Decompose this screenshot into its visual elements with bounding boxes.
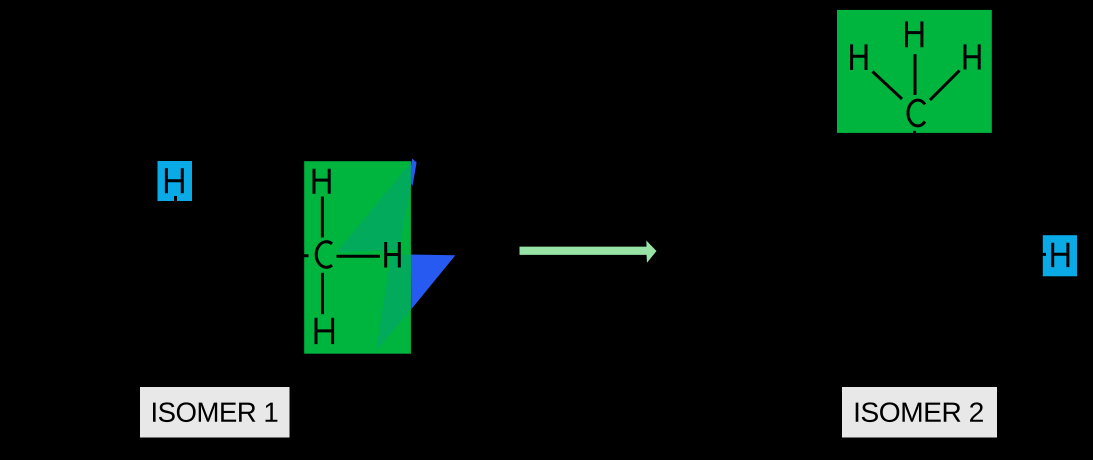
isomer 2: bond left H to C (873, 72, 903, 100)
isomer 1: green highlight box around CH3 (304, 161, 411, 354)
isomer 2: bond stub below C (913, 131, 916, 135)
isomer 2: left H (852, 44, 866, 70)
isomer 2: bond dash left of cyan H (1041, 253, 1047, 256)
isomer 1: C atom (316, 242, 332, 268)
isomer 1: blue sliver at top right of green box (411, 159, 417, 187)
isomer 2: C atom (908, 100, 925, 126)
isomer 1: teal overlay triangle upper (337, 162, 411, 252)
isomer 1: bond C to right H (337, 255, 381, 258)
isomer 2: top H (907, 21, 922, 47)
isomer 2: H atom in cyan box (1053, 243, 1068, 267)
isomer 1: top H (314, 169, 329, 194)
label ISOMER 1 box (140, 387, 290, 438)
isomer 1: H atom in cyan box (166, 168, 182, 193)
isomer 1: bond top H to C (321, 197, 324, 238)
isomer 1: teal overlay quad lower (376, 255, 411, 351)
isomer 2: cyan highlight box around H (1043, 235, 1077, 276)
isomer 1: bond stub left of C (292, 254, 309, 257)
reaction arrow (520, 241, 657, 263)
isomer 2: green highlight box around CH3 (837, 10, 992, 133)
isomer 1: cyan highlight box around H (158, 161, 193, 201)
isomer 2: bond top H to C (914, 54, 917, 95)
label ISOMER 2 box (842, 387, 997, 438)
isomer 1: bottom H (316, 318, 333, 344)
isomer 1: right H (386, 242, 400, 268)
isomer 1: blue triangle right of green box (411, 255, 456, 310)
isomer 2: bond right H to C (930, 71, 960, 101)
label ISOMER 2 text (856, 402, 983, 422)
isomer 1: bond C to bottom H (321, 273, 324, 314)
isomer 1: bond stub below cyan H (174, 196, 177, 202)
isomer 2: right H (965, 44, 979, 69)
label ISOMER 1 text (153, 402, 277, 422)
